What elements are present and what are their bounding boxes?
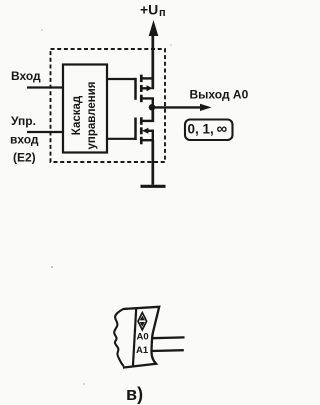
wire gate VT2 [107, 138, 137, 140]
IC symbol fragment: divider line [133, 309, 136, 367]
transistor VT1 (p-channel MOSFET) [136, 75, 154, 107]
label Upr. vhod (E2) [10, 114, 39, 165]
svg-text:А0: А0 [137, 331, 149, 342]
svg-text:0, 1, ∞: 0, 1, ∞ [188, 121, 228, 138]
wire to ground [151, 140, 154, 185]
power net label +Un [140, 1, 166, 19]
IC symbol fragment: body outline [123, 307, 159, 368]
ground [141, 185, 166, 188]
wire input [27, 86, 64, 88]
svg-text:Выход А0: Выход А0 [190, 88, 249, 102]
wire control input [27, 131, 64, 133]
transistor VT2 (n-channel MOSFET) [136, 117, 155, 144]
wire output node to VT2 [151, 107, 154, 122]
dashed enclosure [51, 49, 166, 162]
three-state output qualifier (diamond) [138, 313, 147, 330]
scan speckles [41, 29, 172, 385]
svg-text:Вход: Вход [11, 69, 41, 83]
svg-text:п: п [159, 7, 166, 19]
svg-text:+U: +U [140, 1, 158, 17]
svg-text:(Е2): (Е2) [13, 151, 36, 165]
power arrow [149, 20, 159, 89]
wire output arrow [152, 104, 212, 111]
output states box 0,1,inf [185, 120, 233, 141]
svg-text:Каскад: Каскад [71, 95, 83, 135]
pin A1 [151, 349, 184, 352]
svg-text:А1: А1 [136, 345, 149, 356]
IC symbol fragment: torn left edge [114, 309, 123, 366]
pin A0 [152, 336, 185, 339]
svg-text:управления: управления [86, 82, 98, 150]
svg-text:в): в) [126, 384, 143, 404]
svg-text:Упр.: Упр. [11, 114, 36, 128]
svg-text:вход: вход [10, 133, 39, 147]
output node junction [149, 104, 156, 111]
control block U1 [63, 65, 107, 153]
wire gate VT1 [107, 78, 137, 80]
